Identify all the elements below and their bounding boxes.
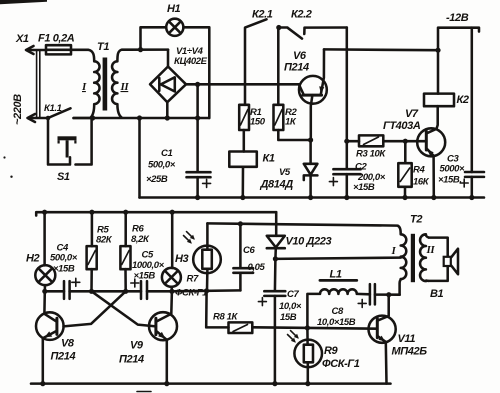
node junction	[89, 289, 94, 294]
resistor R5	[87, 212, 97, 291]
coupling diagonal V9 base	[92, 291, 156, 326]
connector X1 arrow lower	[28, 114, 49, 122]
wire bridge bottom drop	[166, 102, 169, 118]
wire secondary top rail	[122, 48, 168, 51]
wire secondary bottom	[74, 117, 209, 120]
svg-text:R3 10К: R3 10К	[356, 149, 386, 160]
svg-text:V6: V6	[293, 50, 307, 62]
node junction	[308, 137, 313, 142]
svg-text:×15В.: ×15В.	[438, 175, 462, 186]
scan mark bottom	[137, 391, 151, 393]
node junction	[169, 289, 174, 294]
node junctions bottom wire	[90, 115, 200, 120]
svg-text:К2.1: К2.1	[252, 9, 273, 21]
svg-text:К1.1: К1.1	[44, 103, 62, 114]
svg-text:82К: 82К	[96, 235, 113, 246]
svg-text:0,05: 0,05	[248, 262, 266, 273]
svg-text:V10 Д223: V10 Д223	[286, 236, 332, 248]
transistor V8	[36, 291, 64, 383]
transformer T1 core	[103, 58, 108, 111]
wire V6 emitter to -12V node	[324, 48, 438, 51]
svg-text:ФСК-Г1: ФСК-Г1	[175, 288, 207, 299]
wire H1 branch left	[141, 27, 167, 49]
svg-text:Д814Д: Д814Д	[260, 179, 294, 191]
svg-text:II: II	[426, 244, 436, 256]
svg-text:V11: V11	[398, 333, 416, 345]
capacitor C6	[233, 224, 253, 291]
svg-text:С1: С1	[161, 148, 172, 159]
lamp H2	[35, 212, 55, 291]
wire T2 primary bottom drop	[400, 279, 401, 295]
svg-text:С2: С2	[355, 162, 367, 173]
wire K2.2 left contact drop	[277, 28, 280, 85]
capacitor C1	[187, 118, 211, 198]
diode V10	[267, 212, 285, 259]
relay contact K2.1	[245, 19, 267, 105]
svg-text:1000,0×: 1000,0×	[132, 260, 165, 271]
rail junction dots	[40, 381, 310, 386]
coupling diagonal V8 base	[64, 291, 126, 326]
svg-text:×15В: ×15В	[53, 264, 75, 275]
transistor V6	[299, 49, 327, 140]
svg-text:~220В: ~220В	[12, 94, 24, 125]
svg-text:R4: R4	[413, 165, 425, 176]
capacitor C5	[126, 279, 172, 299]
relay coil K2	[424, 94, 454, 129]
rail junction dots	[42, 210, 175, 215]
svg-text:10,0×15В: 10,0×15В	[317, 317, 356, 328]
svg-text:Т2: Т2	[410, 214, 422, 226]
wire R7 C6 box top	[207, 223, 397, 225]
transformer T2 secondary II	[420, 234, 429, 281]
svg-text:X1: X1	[15, 33, 29, 45]
svg-text:С8: С8	[332, 306, 344, 317]
node junction	[195, 82, 200, 87]
svg-text:П214: П214	[284, 62, 309, 74]
resistor R1	[239, 105, 249, 152]
svg-text:МП42Б: МП42Б	[392, 346, 428, 358]
svg-text:R6: R6	[132, 224, 144, 235]
resistor R8	[206, 291, 377, 333]
node junction	[138, 47, 143, 52]
svg-text:500,0×: 500,0×	[50, 253, 78, 264]
svg-text:V5: V5	[279, 167, 291, 178]
node junction	[42, 289, 47, 294]
wire -12V feed	[438, 28, 479, 94]
scan speck	[3, 156, 5, 158]
resistor R6	[120, 212, 130, 291]
wire K2.2 drop to C2 node	[346, 28, 349, 142]
resistor R3	[347, 135, 417, 146]
svg-text:Н1: Н1	[167, 3, 181, 15]
photoresistor R9	[288, 328, 323, 384]
wire tap to T2	[275, 258, 400, 259]
capacitor C3	[460, 28, 484, 198]
capacitor C8	[358, 284, 399, 307]
svg-text:L1: L1	[330, 269, 342, 281]
svg-text:Т1: Т1	[97, 41, 109, 53]
S1 loop wire	[48, 118, 92, 165]
node junction	[123, 289, 128, 294]
svg-text:К1: К1	[263, 153, 275, 165]
resistor R2	[274, 84, 311, 140]
bridge rectifier V1-V4	[150, 67, 186, 103]
wire drop 197	[196, 84, 199, 118]
capacitor C7	[258, 259, 285, 384]
node junction	[276, 25, 281, 30]
push button S1 symbol	[58, 136, 77, 157]
bottom rail	[31, 382, 391, 385]
relay coil K1	[229, 152, 256, 198]
svg-text:500,0×: 500,0×	[148, 160, 176, 171]
svg-text:-12В: -12В	[446, 12, 469, 24]
wire H3 node to C6	[172, 289, 241, 292]
scan mark top edge	[0, 0, 47, 4]
node junction	[403, 139, 408, 144]
svg-text:П214: П214	[51, 351, 76, 363]
svg-text:R8 1К: R8 1К	[213, 312, 238, 323]
svg-text:R7: R7	[187, 274, 199, 285]
transformer T2 primary I	[398, 226, 407, 280]
wire H1 branch right	[183, 27, 209, 118]
svg-text:Н2: Н2	[26, 253, 40, 265]
svg-text:1К: 1К	[285, 117, 297, 128]
svg-text:V7: V7	[405, 108, 419, 120]
svg-text:V8: V8	[61, 338, 75, 350]
svg-text:П214: П214	[119, 354, 144, 366]
wire drop to bottom rail	[138, 118, 141, 198]
svg-text:8,2К: 8,2К	[131, 234, 150, 245]
svg-text:К2: К2	[457, 94, 469, 106]
svg-text:×15В: ×15В	[134, 271, 156, 282]
svg-text:V9: V9	[130, 340, 144, 352]
svg-text:150: 150	[250, 117, 266, 128]
svg-text:×15В: ×15В	[353, 182, 375, 193]
bottom rail of top circuit	[140, 196, 485, 199]
node junction	[238, 221, 243, 226]
capacitor C4	[45, 278, 92, 299]
svg-text:ГТ403А: ГТ403А	[383, 120, 421, 132]
svg-text:×25В: ×25В	[146, 174, 168, 185]
svg-text:10,0×: 10,0×	[279, 301, 302, 312]
connector X1 arrow upper	[26, 46, 46, 54]
svg-text:В1: В1	[430, 288, 444, 300]
transistor V11	[369, 295, 396, 384]
wire fuse to T1	[71, 49, 88, 52]
inductor L1	[307, 280, 370, 328]
svg-text:S1: S1	[57, 171, 70, 183]
capacitor C2	[329, 141, 360, 197]
svg-text:С5: С5	[142, 250, 154, 261]
node junction	[204, 288, 209, 293]
svg-text:F1 0,2A: F1 0,2A	[38, 33, 75, 45]
node junction	[435, 48, 440, 53]
resistor R4	[398, 141, 411, 197]
lamp H3	[162, 212, 181, 291]
relay contact K2.2	[279, 28, 347, 39]
svg-text:5000×: 5000×	[440, 164, 466, 175]
svg-text:С6: С6	[243, 245, 255, 256]
wire main rail y84	[186, 83, 300, 86]
svg-text:КЦ402Е: КЦ402Е	[174, 56, 208, 67]
node junction	[386, 292, 391, 297]
svg-text:С7: С7	[287, 289, 299, 300]
lamp H1	[166, 19, 183, 36]
svg-text:II: II	[120, 81, 130, 93]
transistor V7	[417, 128, 445, 197]
fuse F1	[46, 45, 71, 54]
svg-text:15В: 15В	[280, 312, 297, 323]
svg-text:ФСК-Г1: ФСК-Г1	[322, 358, 360, 370]
mains twin lead	[37, 51, 40, 117]
switch K1.1	[46, 108, 93, 120]
svg-text:R9: R9	[324, 345, 339, 357]
svg-text:Н3: Н3	[175, 253, 189, 265]
transformer T2 core	[411, 234, 415, 282]
scan speck	[10, 176, 12, 178]
transistor V9	[149, 291, 177, 383]
photoresistor R7	[184, 223, 221, 290]
wire bridge top drop	[167, 50, 170, 67]
svg-text:К2.2: К2.2	[291, 9, 312, 21]
zener diode V5	[304, 140, 318, 198]
node junction	[344, 139, 349, 144]
bottom circuit top rail	[36, 212, 276, 215]
rail junction dots	[195, 195, 474, 200]
transformer T1 secondary winding II	[112, 50, 122, 118]
transformer T1 primary winding I	[88, 50, 100, 118]
speaker B1 loop	[429, 238, 458, 281]
node junction	[305, 325, 310, 330]
wire node row	[92, 290, 126, 293]
svg-text:16К: 16К	[413, 177, 430, 188]
node junction	[273, 256, 278, 261]
